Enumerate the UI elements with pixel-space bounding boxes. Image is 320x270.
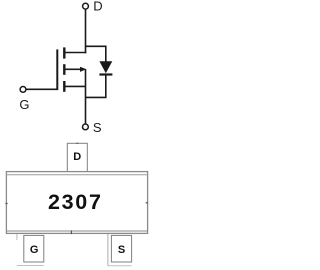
wire gate	[26, 88, 58, 90]
wire diode top branch	[86, 46, 106, 62]
package body outline	[6, 172, 147, 234]
transistor Q1 gate electrode	[56, 49, 58, 90]
transistor Q1 body arrow head	[80, 67, 86, 72]
package body bottom seam tick	[70, 230, 72, 234]
wire source vertical	[85, 69, 87, 124]
package pin S side face hint	[107, 234, 109, 266]
package pin S lead	[111, 235, 131, 262]
package pin G underside hint	[17, 265, 44, 267]
svg-text:S: S	[118, 244, 125, 256]
package pin D lead	[67, 143, 87, 171]
diode D1 cathode bar	[99, 73, 112, 75]
terminal G circle	[20, 87, 26, 93]
wire drain to channel	[64, 52, 86, 54]
svg-text:G: G	[30, 244, 39, 256]
package body top inner line	[6, 174, 147, 176]
terminal D circle	[83, 3, 89, 9]
wire diode bottom branch	[86, 75, 106, 98]
package body right seam tick	[146, 202, 148, 204]
package pin D top seam tick	[76, 142, 78, 144]
svg-text:S: S	[93, 120, 102, 135]
package pin G side face hint	[16, 234, 18, 240]
diode D1 body diode triangle	[99, 61, 112, 73]
transistor Q1 body arrow line	[66, 68, 82, 70]
package body bottom inner line	[6, 230, 147, 232]
transistor Q1 channel bar source	[63, 81, 65, 92]
package pin G lead	[24, 235, 44, 262]
package pin S underside hint	[108, 265, 132, 267]
svg-text:D: D	[93, 0, 102, 14]
transistor Q1 channel bar drain	[63, 47, 65, 58]
svg-text:D: D	[73, 151, 81, 163]
wire source to channel	[66, 85, 86, 87]
wire drain vertical	[85, 9, 87, 53]
package body left seam tick	[5, 203, 7, 205]
svg-text:2307: 2307	[48, 190, 103, 214]
transistor Q1 channel bar body	[63, 64, 65, 75]
svg-text:G: G	[19, 97, 29, 112]
terminal S circle	[83, 124, 89, 130]
